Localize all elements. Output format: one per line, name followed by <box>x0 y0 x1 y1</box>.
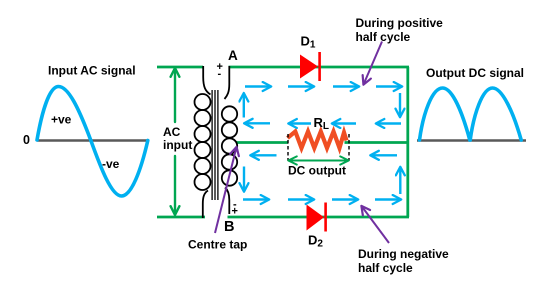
svg-text:B: B <box>224 219 234 235</box>
svg-text:During positive: During positive <box>356 16 444 30</box>
transformer T1 core <box>212 90 218 200</box>
transformer T1 primary bottom lead <box>203 191 208 219</box>
current arrow: bottom wire rightward 2 <box>288 198 314 200</box>
current arrow: RL row leftward 1 (toward centre tap) <box>244 122 270 124</box>
transformer T1 secondary top lead (to node A) <box>225 66 230 99</box>
wire: node B to bottom-right corner (through D2) <box>228 216 410 219</box>
current arrow: bottom wire rightward 1 <box>243 198 269 200</box>
output DC waveform hump 2 <box>470 88 521 140</box>
DC output dashed bracket right <box>348 134 350 161</box>
current arrow: top wire rightward 1 <box>245 85 271 87</box>
svg-text:+ve: +ve <box>51 113 72 127</box>
DC output dashed bracket left <box>287 134 289 161</box>
wire: centre tap to load resistor RL <box>237 141 289 144</box>
current arrow: below centre wire leftward 2 <box>371 154 398 156</box>
current arrow: right side upward <box>399 167 401 194</box>
wire: top left, AC source to primary top lead <box>157 66 203 69</box>
current arrow: below centre wire leftward 1 <box>251 154 277 156</box>
input AC sine wave <box>37 87 148 197</box>
svg-text:DC output: DC output <box>288 164 346 178</box>
diode D2 <box>307 203 327 232</box>
svg-text:half cycle: half cycle <box>356 30 411 44</box>
svg-text:-: - <box>218 68 222 80</box>
current arrow: top wire rightward 3 <box>333 85 359 87</box>
annotation arrow: during positive half cycle <box>364 42 383 85</box>
output waveform time axis <box>417 139 526 142</box>
svg-text:half cycle: half cycle <box>358 261 413 275</box>
current arrow: RL row leftward 3 <box>332 122 356 124</box>
svg-text:Output DC signal: Output DC signal <box>426 66 524 80</box>
wire: load resistor RL to right side <box>345 141 408 144</box>
current arrow: upward toward node A <box>243 93 245 117</box>
svg-text:input: input <box>163 138 192 152</box>
AC source double-headed arrow (green) <box>171 68 180 215</box>
svg-text:-ve: -ve <box>102 157 120 171</box>
svg-text:Centre tap: Centre tap <box>188 238 247 252</box>
diode D1 <box>300 52 321 81</box>
annotation arrow: centre tap pointer <box>215 147 237 233</box>
transformer T1 secondary winding (centre tapped) <box>222 106 237 185</box>
svg-text:D1: D1 <box>301 34 316 51</box>
transformer T1 primary winding <box>195 94 211 190</box>
output DC waveform hump 1 <box>420 88 470 140</box>
wire: right vertical side of loop <box>406 67 409 217</box>
svg-text:A: A <box>228 48 238 63</box>
current arrow: bottom wire rightward 4 <box>375 198 401 200</box>
resistor RL (load) <box>288 132 347 149</box>
transformer T1 secondary bottom lead (to node B) <box>225 188 229 215</box>
input waveform time axis <box>37 139 149 142</box>
svg-text:During negative: During negative <box>358 247 449 261</box>
svg-text:Input AC signal: Input AC signal <box>48 64 136 78</box>
wire: bottom left, AC source to primary bottom lead <box>157 216 205 219</box>
svg-text:+: + <box>232 206 238 218</box>
current arrow: right side downward <box>399 93 401 117</box>
current arrow: RL row leftward 4 <box>376 122 401 124</box>
svg-text:AC: AC <box>163 125 181 139</box>
svg-text:0: 0 <box>23 133 30 147</box>
wire: node A to top-right corner (through D1) <box>229 66 410 69</box>
svg-text:D2: D2 <box>308 233 323 250</box>
current arrow: downward toward node B <box>243 167 245 192</box>
current arrow: bottom wire rightward 3 <box>332 198 358 200</box>
current arrow: top wire rightward 4 <box>376 85 402 87</box>
current arrow: RL row leftward 2 <box>289 122 312 124</box>
transformer T1 primary top lead <box>203 66 210 95</box>
current arrow: top wire rightward 2 <box>288 85 314 87</box>
annotation arrow: during negative half cycle <box>362 206 390 243</box>
svg-text:RL: RL <box>314 115 330 132</box>
DC output measurement double-headed arrow <box>288 156 348 164</box>
